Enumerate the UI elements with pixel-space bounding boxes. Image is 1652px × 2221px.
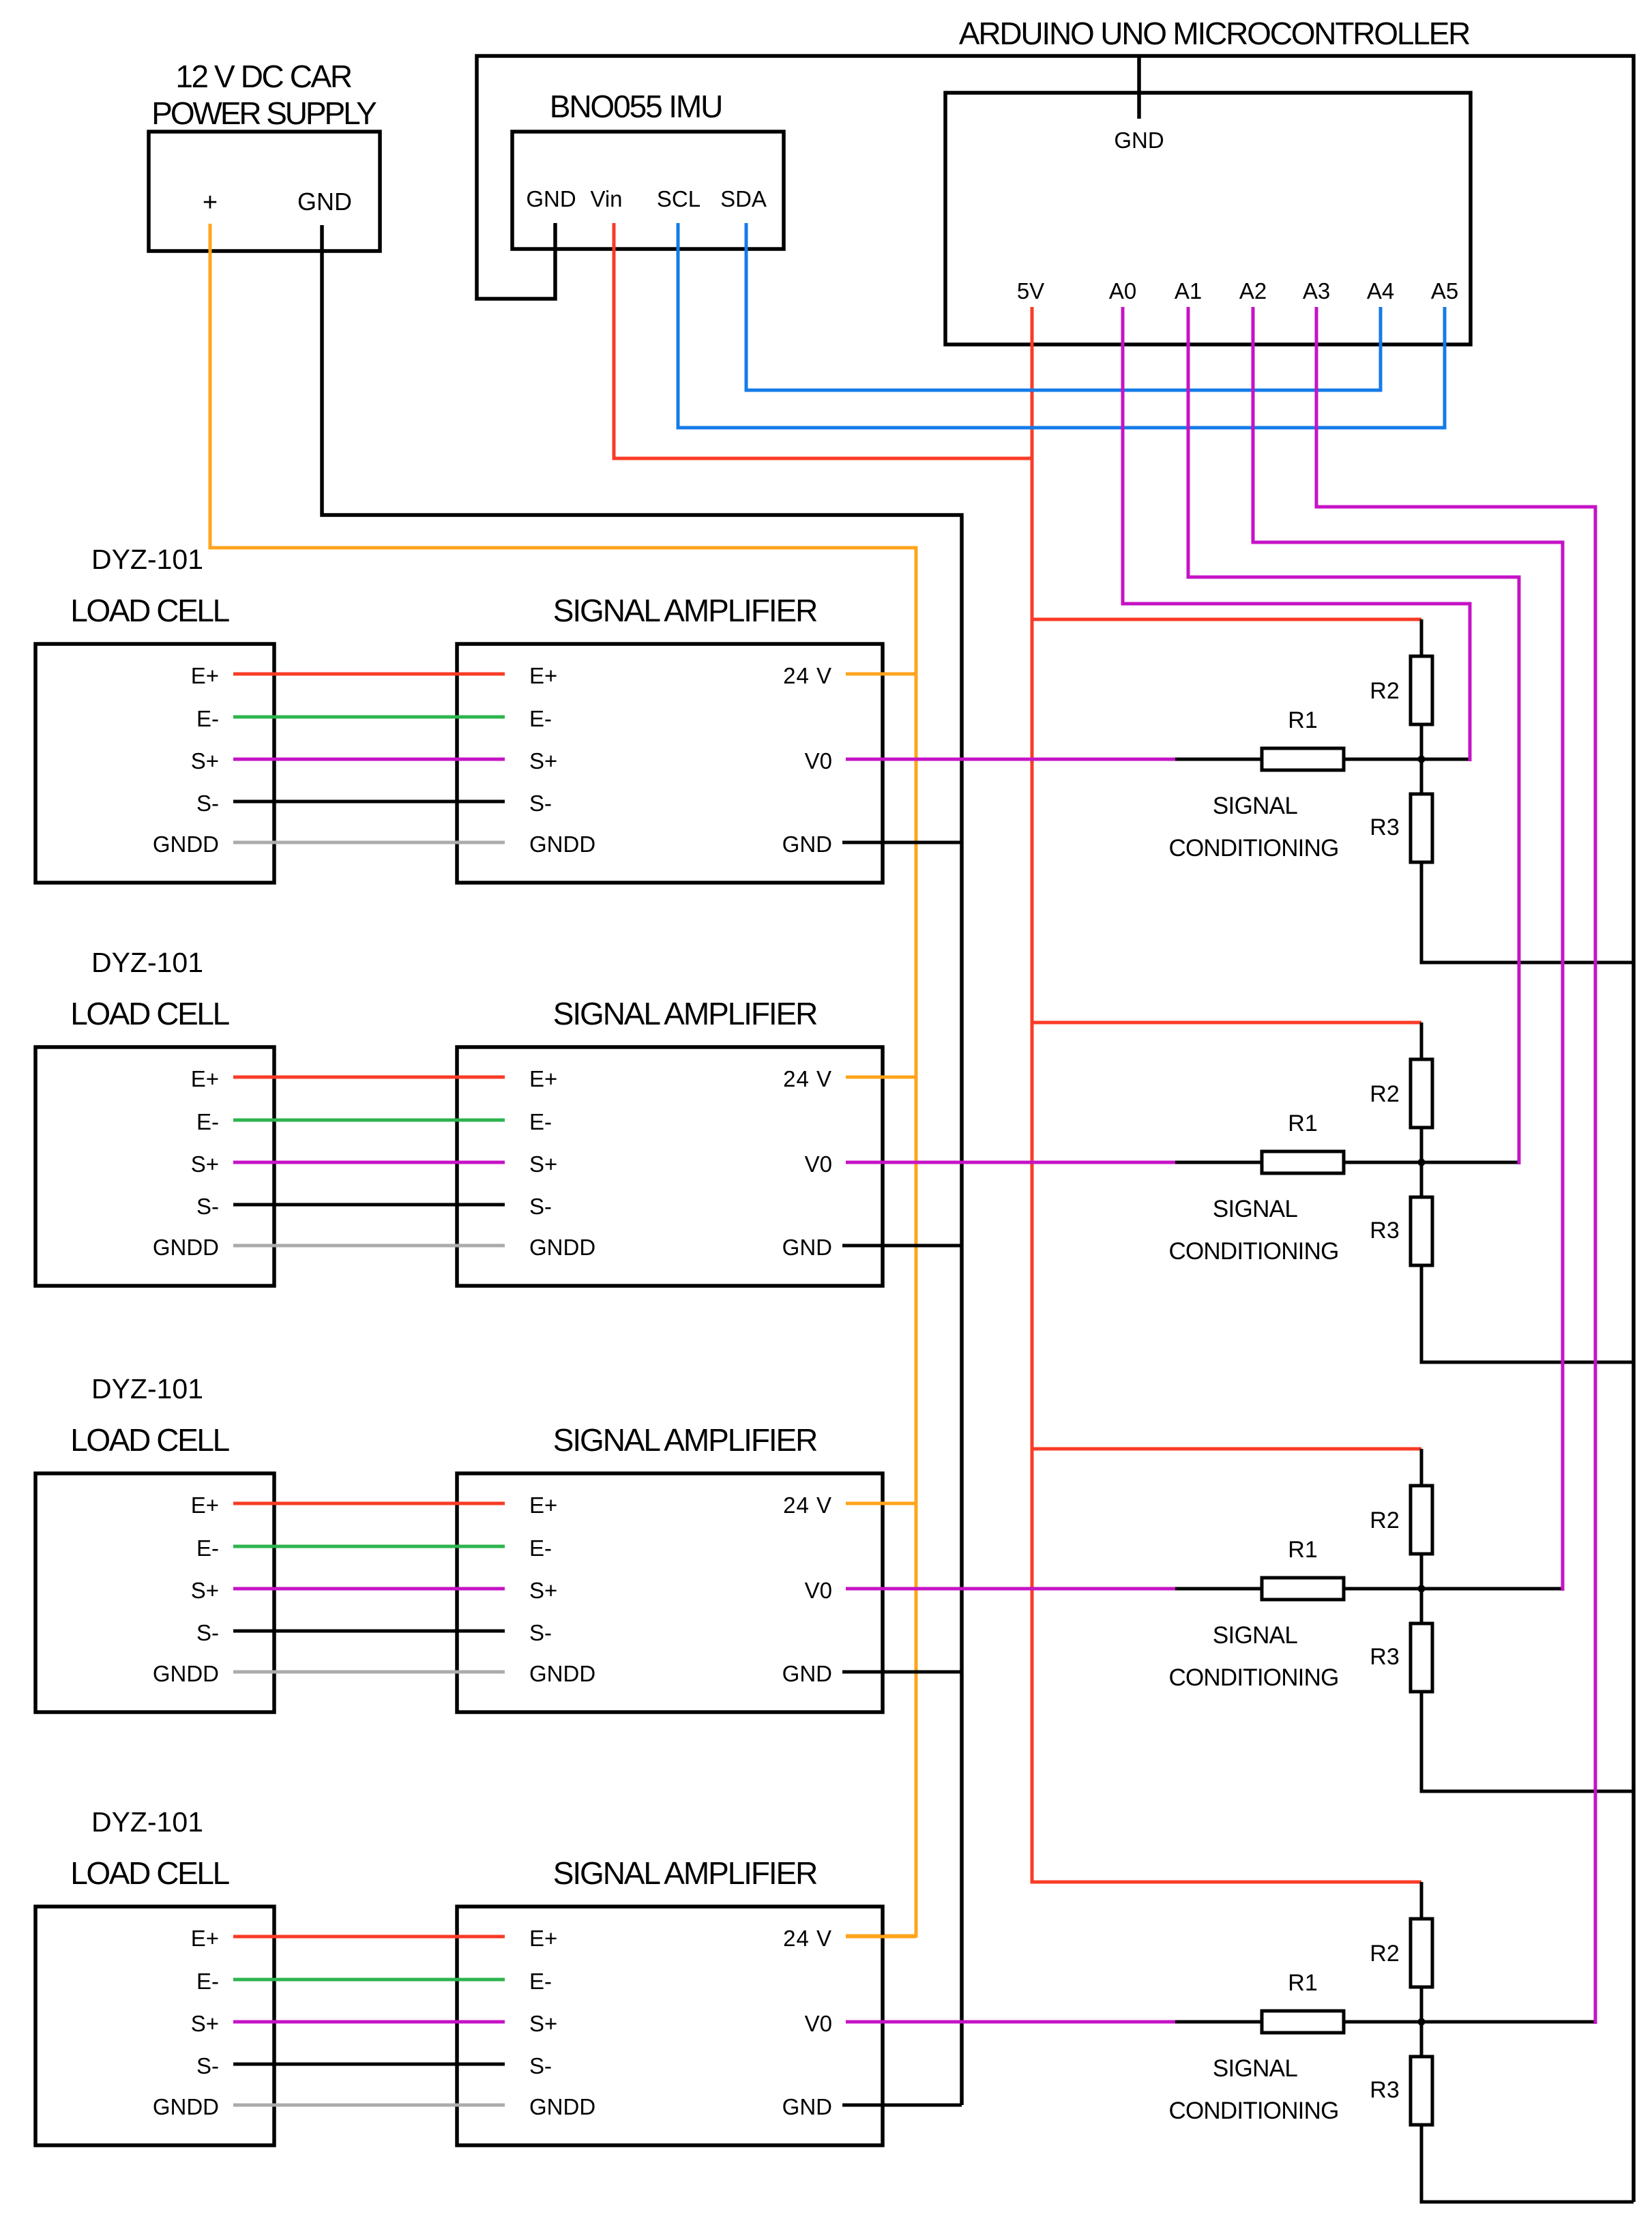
svg-text:GNDD: GNDD	[529, 1235, 595, 1260]
svg-text:V0: V0	[805, 1151, 832, 1177]
load cell LC1 box	[35, 644, 274, 883]
svg-text:S-: S-	[529, 791, 552, 816]
label SIGNAL CONDITIONING (1)	[1168, 793, 1338, 862]
svg-text:GND: GND	[782, 1235, 832, 1260]
svg-text:GNDD: GNDD	[153, 1661, 219, 1686]
svg-text:GND: GND	[526, 186, 576, 211]
svg-text:S+: S+	[191, 1578, 219, 1603]
svg-text:R1: R1	[1288, 1110, 1317, 1136]
svg-text:GNDD: GNDD	[153, 2094, 219, 2119]
svg-text:V0: V0	[805, 2011, 832, 2036]
svg-text:R2: R2	[1370, 678, 1399, 704]
svg-text:S+: S+	[529, 1151, 557, 1177]
svg-text:GND: GND	[1114, 128, 1164, 153]
svg-text:E+: E+	[529, 1492, 557, 1518]
wire: S+ LC4 to AMP4	[233, 2020, 505, 2024]
svg-text:S-: S-	[196, 1620, 219, 1645]
junction node divider 2	[1418, 1159, 1426, 1166]
signal amplifier AMP1 box	[457, 644, 883, 883]
svg-text:SIGNAL: SIGNAL	[1213, 1196, 1297, 1222]
wire: R3-1 bottom lead to ground return	[1421, 862, 1634, 962]
wire: GNDD LC3 to AMP3	[233, 1671, 505, 1674]
wire: R2-2 top lead	[1420, 1023, 1424, 1059]
svg-text:ARDUINO UNO MICROCONTROLLER: ARDUINO UNO MICROCONTROLLER	[959, 16, 1470, 51]
wire: magenta A0 net from U1 to signal conditioning 1	[1123, 307, 1470, 761]
wire: R2-4 top lead	[1420, 1882, 1424, 1919]
svg-text:R2: R2	[1370, 1941, 1399, 1967]
svg-text:CONDITIONING: CONDITIONING	[1168, 2098, 1338, 2124]
svg-text:LOAD CELL: LOAD CELL	[70, 996, 229, 1031]
svg-text:DYZ-101: DYZ-101	[91, 947, 203, 978]
wire: S- LC4 to AMP4	[233, 2063, 505, 2066]
svg-text:SIGNAL: SIGNAL	[1213, 1622, 1297, 1649]
svg-text:24 V: 24 V	[783, 1066, 832, 1091]
svg-text:24 V: 24 V	[783, 1492, 832, 1518]
svg-text:S+: S+	[191, 2011, 219, 2036]
resistor R1 (4)	[1262, 2011, 1344, 2033]
svg-text:+: +	[203, 188, 218, 217]
resistor R3 (1)	[1411, 794, 1432, 862]
svg-text:S-: S-	[529, 1620, 552, 1645]
wire: magenta A3 net from U1 to signal conditioning 4	[1316, 307, 1595, 2024]
svg-text:GND: GND	[782, 832, 832, 857]
wire: R2-1 bottom lead to junction	[1420, 724, 1424, 759]
svg-text:E+: E+	[191, 1926, 219, 1951]
wire: E- LC2 to AMP2	[233, 1119, 505, 1122]
svg-text:E-: E-	[196, 1109, 219, 1134]
wire: R1-2 input lead	[1175, 1161, 1262, 1164]
svg-text:S-: S-	[529, 2053, 552, 2078]
label SIGNAL CONDITIONING (3)	[1168, 1622, 1338, 1691]
wire: S- LC3 to AMP3	[233, 1630, 505, 1633]
power supply PS1 title	[151, 59, 377, 131]
svg-text:E-: E-	[529, 1109, 552, 1134]
svg-text:E+: E+	[191, 663, 219, 688]
svg-text:E-: E-	[196, 706, 219, 731]
wire: red 5V branch to divider 3	[1032, 1447, 1421, 1451]
svg-text:LOAD CELL: LOAD CELL	[70, 1855, 229, 1891]
resistor R3 (3)	[1411, 1623, 1432, 1692]
microcontroller U1 box	[945, 93, 1471, 344]
svg-text:S-: S-	[196, 2053, 219, 2078]
wire: S+ LC3 to AMP3	[233, 1587, 505, 1591]
svg-text:A4: A4	[1367, 278, 1394, 304]
wire: R1-4 input lead	[1175, 2020, 1262, 2024]
wire: red 5V bus from U1 5V pin down to signal conditioning dividers	[1032, 307, 1421, 1882]
svg-text:R3: R3	[1370, 1218, 1399, 1244]
svg-text:E-: E-	[196, 1969, 219, 1994]
junction node divider 1	[1418, 756, 1426, 763]
wire: red 5V branch to divider 2	[1032, 1021, 1421, 1025]
svg-text:S-: S-	[196, 791, 219, 816]
svg-text:CONDITIONING: CONDITIONING	[1168, 835, 1338, 862]
svg-text:GNDD: GNDD	[529, 832, 595, 857]
svg-text:R3: R3	[1370, 2077, 1399, 2103]
load cell LC3 box	[35, 1473, 274, 1712]
svg-text:E+: E+	[191, 1066, 219, 1091]
svg-text:SIGNAL AMPLIFIER: SIGNAL AMPLIFIER	[553, 1422, 817, 1458]
svg-text:E+: E+	[529, 663, 557, 688]
wire: S+ LC2 to AMP2	[233, 1161, 505, 1164]
svg-text:A1: A1	[1175, 278, 1202, 304]
wire: E+ LC3 to AMP3	[233, 1502, 505, 1505]
svg-text:R3: R3	[1370, 1644, 1399, 1670]
svg-text:S+: S+	[529, 2011, 557, 2036]
signal amplifier AMP4 box	[457, 1907, 883, 2145]
wire: R3-3 bottom lead to ground return	[1421, 1692, 1634, 1791]
wire: R1-3 output to junction and A2 line	[1344, 1587, 1563, 1591]
svg-text:CONDITIONING: CONDITIONING	[1168, 1238, 1338, 1265]
svg-text:DYZ-101: DYZ-101	[91, 1373, 203, 1404]
load cell LC4 box	[35, 1907, 274, 2145]
wire: R2-4 bottom lead to junction	[1420, 1987, 1424, 2022]
wire: R2-3 bottom lead to junction	[1420, 1554, 1424, 1589]
wire: orange 24 V tap AMP2	[846, 1076, 916, 1079]
label SIGNAL CONDITIONING (2)	[1168, 1196, 1338, 1265]
svg-text:SCL: SCL	[657, 186, 700, 211]
wire: AMP2 GND to ground down-bus	[842, 1244, 962, 1248]
wire: R1-1 input lead	[1175, 758, 1262, 761]
svg-text:24 V: 24 V	[783, 663, 832, 688]
wire: E+ LC2 to AMP2	[233, 1076, 505, 1079]
svg-text:SIGNAL: SIGNAL	[1213, 2055, 1297, 2082]
wire: GNDD LC4 to AMP4	[233, 2104, 505, 2107]
svg-text:LOAD CELL: LOAD CELL	[70, 1422, 229, 1458]
svg-text:E+: E+	[529, 1926, 557, 1951]
wire: AMP3 GND to ground down-bus	[842, 1671, 962, 1674]
svg-text:GND: GND	[297, 188, 352, 216]
svg-text:SIGNAL AMPLIFIER: SIGNAL AMPLIFIER	[553, 593, 817, 628]
svg-text:E-: E-	[196, 1535, 219, 1561]
wire: R2-3 top lead	[1420, 1449, 1424, 1486]
svg-text:POWER SUPPLY: POWER SUPPLY	[151, 95, 377, 131]
wire: R3-1 top lead	[1420, 759, 1424, 794]
resistor R1 (2)	[1262, 1151, 1344, 1173]
wire: E- LC1 to AMP1	[233, 716, 505, 719]
svg-text:E+: E+	[191, 1492, 219, 1518]
svg-text:S+: S+	[191, 748, 219, 774]
svg-text:S+: S+	[529, 1578, 557, 1603]
wire: orange 24 V tap AMP4	[846, 1935, 916, 1939]
signal amplifier AMP3 box	[457, 1473, 883, 1712]
resistor R2 (3)	[1411, 1486, 1432, 1554]
wire: R3-4 bottom lead to ground return	[1421, 2125, 1634, 2202]
svg-text:CONDITIONING: CONDITIONING	[1168, 1664, 1338, 1691]
wire: E+ LC1 to AMP1	[233, 673, 505, 676]
svg-text:V0: V0	[805, 748, 832, 774]
svg-text:SIGNAL AMPLIFIER: SIGNAL AMPLIFIER	[553, 1855, 817, 1891]
resistor R2 (1)	[1411, 656, 1432, 724]
IMU U2 box	[512, 132, 784, 249]
junction node divider 4	[1418, 2018, 1426, 2026]
resistor R2 (2)	[1411, 1059, 1432, 1128]
svg-text:24 V: 24 V	[783, 1926, 832, 1951]
wire: AMP1 GND to ground down-bus	[842, 841, 962, 844]
wire: magenta V0 output of AMP3	[846, 1587, 1175, 1591]
wire: S- LC2 to AMP2	[233, 1203, 505, 1207]
wire: R1-4 output to junction and A3 line	[1344, 2020, 1595, 2024]
wire: magenta V0 output of AMP1	[846, 758, 1175, 761]
load cell LC2 box	[35, 1047, 274, 1286]
junction node divider 3	[1418, 1585, 1426, 1593]
svg-text:R1: R1	[1288, 1537, 1317, 1563]
svg-text:GNDD: GNDD	[153, 1235, 219, 1260]
signal amplifier AMP2 box	[457, 1047, 883, 1286]
svg-text:E-: E-	[529, 706, 552, 731]
svg-text:E-: E-	[529, 1969, 552, 1994]
wire: R1-3 input lead	[1175, 1587, 1262, 1591]
svg-text:GND: GND	[782, 1661, 832, 1686]
svg-text:S+: S+	[191, 1151, 219, 1177]
wire: R1-1 output to junction and A0 line	[1344, 758, 1470, 761]
svg-text:A5: A5	[1431, 278, 1458, 304]
svg-text:S-: S-	[196, 1194, 219, 1219]
svg-text:A2: A2	[1239, 278, 1267, 304]
ground net: U2 GND bracket, top bus and right-side return bus	[477, 56, 1634, 2202]
svg-text:R2: R2	[1370, 1507, 1399, 1533]
wire: R2-1 top lead	[1420, 619, 1424, 656]
wire: R1-2 output to junction and A1 line	[1344, 1161, 1519, 1164]
wire: orange 24 V tap AMP1	[846, 673, 916, 676]
svg-text:R2: R2	[1370, 1081, 1399, 1107]
resistor R1 (3)	[1262, 1578, 1344, 1600]
wire: blue SDA of U2 to U1 A4	[746, 223, 1381, 390]
wire: R3-2 bottom lead to ground return	[1421, 1265, 1634, 1362]
wire: R3-2 top lead	[1420, 1162, 1424, 1197]
svg-text:DYZ-101: DYZ-101	[91, 1806, 203, 1838]
wire: magenta A2 net from U1 to signal conditioning 3	[1253, 307, 1563, 1591]
wire: GNDD LC2 to AMP2	[233, 1244, 505, 1248]
wire: GNDD LC1 to AMP1	[233, 841, 505, 844]
svg-text:V0: V0	[805, 1578, 832, 1603]
wire: S+ LC1 to AMP1	[233, 758, 505, 761]
svg-text:S-: S-	[529, 1194, 552, 1219]
resistor R3 (4)	[1411, 2057, 1432, 2125]
svg-text:R3: R3	[1370, 814, 1399, 840]
svg-text:GNDD: GNDD	[153, 832, 219, 857]
svg-text:SDA: SDA	[720, 186, 767, 211]
label SIGNAL CONDITIONING (4)	[1168, 2055, 1338, 2124]
svg-text:SIGNAL AMPLIFIER: SIGNAL AMPLIFIER	[553, 996, 817, 1031]
svg-text:12 V DC CAR: 12 V DC CAR	[175, 59, 352, 94]
wire: red 5V branch to divider 4	[1032, 1881, 1421, 1884]
wire: E- LC4 to AMP4	[233, 1978, 505, 1982]
wire: E- LC3 to AMP3	[233, 1545, 505, 1548]
svg-text:Vin: Vin	[590, 186, 622, 211]
resistor R2 (4)	[1411, 1919, 1432, 1987]
svg-text:SIGNAL: SIGNAL	[1213, 793, 1297, 819]
svg-text:E+: E+	[529, 1066, 557, 1091]
ground net: PS1 GND down-bus feeding amplifier GND pins	[322, 225, 962, 2105]
resistor R3 (2)	[1411, 1197, 1432, 1265]
svg-text:A3: A3	[1303, 278, 1330, 304]
svg-text:S+: S+	[529, 748, 557, 774]
power supply PS1 box	[149, 132, 380, 251]
wire: R3-4 top lead	[1420, 2022, 1424, 2057]
svg-text:BNO055 IMU: BNO055 IMU	[550, 89, 722, 124]
wire: R2-2 bottom lead to junction	[1420, 1128, 1424, 1162]
svg-text:R1: R1	[1288, 707, 1317, 733]
wire: AMP4 GND to ground down-bus	[842, 2104, 962, 2107]
svg-text:GNDD: GNDD	[529, 2094, 595, 2119]
wire: magenta A1 net from U1 to signal conditioning 2	[1188, 307, 1519, 1164]
svg-text:GNDD: GNDD	[529, 1661, 595, 1686]
svg-text:LOAD CELL: LOAD CELL	[70, 593, 229, 628]
svg-text:GND: GND	[782, 2094, 832, 2119]
wire: magenta V0 output of AMP4	[846, 2020, 1175, 2024]
wire: red 5V branch to divider 1	[1032, 618, 1421, 621]
svg-text:DYZ-101: DYZ-101	[91, 544, 203, 575]
wire: E+ LC4 to AMP4	[233, 1935, 505, 1939]
svg-text:R1: R1	[1288, 1970, 1317, 1996]
wire: U1 GND stub to top ground bus	[1137, 57, 1141, 119]
wire: orange 24 V tap AMP3	[846, 1502, 916, 1505]
wire: S- LC1 to AMP1	[233, 800, 505, 804]
wire: magenta V0 output of AMP2	[846, 1161, 1175, 1164]
svg-text:5V: 5V	[1017, 278, 1044, 304]
wire: R3-3 top lead	[1420, 1589, 1424, 1623]
wire: orange +12V bus from PS1 + to amplifier 24 V pins	[210, 224, 916, 1936]
svg-text:A0: A0	[1109, 278, 1136, 304]
wire: blue SCL of U2 to U1 A5	[678, 223, 1445, 428]
resistor R1 (1)	[1262, 748, 1344, 770]
wire: red Vin of U2 to 5V bus	[614, 223, 1032, 458]
svg-text:E-: E-	[529, 1535, 552, 1561]
